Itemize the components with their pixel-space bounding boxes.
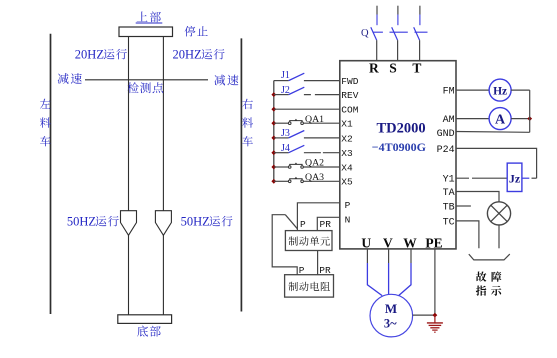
label 制动电阻	[289, 282, 330, 291]
switch J3	[274, 131, 340, 138]
svg-text:P: P	[345, 200, 351, 211]
junction node on bus y=167	[271, 165, 276, 170]
svg-text:AM: AM	[443, 115, 455, 126]
braking resistor 制动电阻 box	[285, 275, 334, 297]
wire W to motor	[399, 249, 411, 296]
contact QA2 (limit switch)	[274, 163, 340, 169]
svg-text:R: R	[369, 60, 379, 75]
svg-text:Jz: Jz	[509, 172, 521, 186]
label 20HZ运行 right	[173, 47, 225, 61]
junction node ground	[432, 313, 437, 318]
switch J2 (reverse run)	[274, 87, 340, 94]
label 检测点 (detection point)	[128, 82, 164, 93]
meter return bus vertical	[529, 90, 531, 132]
svg-text:X3: X3	[341, 148, 353, 159]
label 停止 (stop)	[185, 26, 208, 37]
breaker Q pole S supply lead	[392, 6, 398, 61]
fault group bracket	[469, 254, 510, 260]
left rail (hoist guide, 左料车 track)	[50, 34, 52, 314]
motor M 3~	[370, 294, 413, 337]
shaft column right wall	[162, 37, 164, 315]
shaft column left wall	[128, 37, 130, 315]
svg-text:M: M	[385, 301, 397, 316]
label 50HZ运行 right	[181, 214, 233, 228]
contact QA3 (limit switch)	[274, 177, 340, 183]
junction node on bus y=95	[271, 92, 276, 97]
pin P wire to braking unit	[297, 203, 339, 231]
braking unit 制动单元 box	[285, 231, 332, 251]
svg-text:V: V	[383, 236, 393, 251]
junction node on bus y=138	[271, 135, 276, 140]
svg-text:X2: X2	[341, 133, 353, 144]
label 20HZ运行 left	[75, 47, 127, 61]
wire Jz to P24 drop	[522, 177, 537, 179]
wire motor frame to ground	[413, 314, 435, 316]
detection point line	[85, 79, 208, 81]
svg-text:Hz: Hz	[493, 85, 507, 97]
junction node on bus y=153	[271, 150, 276, 155]
svg-text:TD2000: TD2000	[377, 121, 426, 137]
wire V to motor	[388, 249, 390, 294]
wire FM to Hz meter	[456, 89, 489, 91]
label 底部 (bottom)	[137, 326, 161, 337]
svg-text:FWD: FWD	[341, 76, 358, 87]
label 故障指示 (fault indication)	[476, 271, 502, 295]
svg-text:J3: J3	[281, 128, 290, 139]
svg-text:20HZ: 20HZ	[75, 47, 104, 61]
svg-text:X1: X1	[341, 119, 353, 130]
wire A to meter bus	[511, 118, 530, 120]
svg-text:20HZ: 20HZ	[173, 47, 202, 61]
switch J1 (forward run)	[274, 73, 340, 80]
svg-text:50HZ: 50HZ	[181, 214, 210, 228]
svg-text:QA1: QA1	[305, 114, 324, 125]
svg-text:P: P	[299, 265, 305, 276]
wire Hz to meter bus	[511, 89, 530, 91]
relay coil Jz	[507, 163, 522, 191]
svg-text:QA3: QA3	[305, 172, 324, 183]
wire TA to fault lamp	[456, 192, 499, 202]
svg-text:Q: Q	[361, 28, 369, 39]
svg-text:PR: PR	[320, 219, 332, 230]
wire braking unit P to resistor P	[272, 215, 297, 275]
meter A (ammeter)	[489, 108, 511, 130]
svg-text:TA: TA	[443, 188, 455, 199]
svg-text:A: A	[495, 112, 506, 127]
junction node meters	[527, 116, 532, 121]
svg-text:QA2: QA2	[305, 157, 324, 168]
wire TC down	[456, 221, 479, 248]
svg-text:COM: COM	[341, 105, 358, 116]
label 50HZ运行 left	[67, 214, 119, 228]
label 减速 right	[214, 75, 238, 86]
svg-text:GND: GND	[437, 129, 455, 140]
label 左料车 vertical (left cart)	[40, 99, 51, 147]
svg-text:FM: FM	[443, 87, 455, 98]
svg-text:J2: J2	[281, 85, 290, 96]
label 减速 left	[58, 73, 82, 84]
svg-text:TC: TC	[443, 217, 455, 228]
svg-text:W: W	[403, 236, 417, 251]
svg-text:50HZ: 50HZ	[67, 214, 96, 228]
svg-text:P: P	[300, 219, 306, 230]
pin N wire to braking unit	[317, 217, 340, 230]
wire U to motor	[367, 249, 382, 296]
svg-text:PE: PE	[425, 236, 442, 251]
svg-text:PR: PR	[319, 265, 331, 276]
wire braking unit PR to resistor PR	[317, 251, 319, 275]
breaker Q pole R supply lead	[371, 6, 377, 61]
label 上部 (top)	[136, 11, 163, 23]
wire PE to ground	[434, 249, 436, 315]
contact QA1 (limit switch)	[274, 119, 340, 125]
svg-text:J1: J1	[281, 70, 290, 81]
label 制动单元	[289, 236, 330, 245]
top crossbeam bar	[119, 27, 173, 37]
junction node on bus y=181	[271, 179, 276, 184]
wire TB stub	[456, 205, 471, 207]
svg-text:3~: 3~	[384, 317, 397, 331]
left hopper (pentagon pointer)	[121, 211, 137, 236]
bottom base bar	[118, 315, 172, 324]
svg-text:N: N	[345, 214, 351, 225]
breaker Q linkage (dashed)	[373, 31, 428, 33]
junction node on bus y=123	[271, 121, 276, 126]
svg-text:TB: TB	[443, 203, 455, 214]
svg-text:REV: REV	[341, 90, 358, 101]
wire GND return	[456, 131, 530, 134]
right hopper (pentagon pointer)	[155, 211, 171, 236]
svg-text:−4T0900G: −4T0900G	[372, 140, 426, 154]
svg-text:X4: X4	[341, 162, 353, 173]
svg-text:J4: J4	[281, 143, 290, 154]
control common bus wire	[273, 81, 275, 182]
junction node on bus y=109	[271, 107, 276, 112]
fault lamp (circle-X)	[487, 202, 510, 225]
ground symbol	[427, 315, 443, 332]
svg-text:U: U	[361, 236, 371, 251]
right rail (hoist guide, 右料车 track)	[240, 38, 242, 311]
wire P24 to relay supply	[456, 148, 537, 178]
label 右料车 vertical (right cart)	[242, 99, 253, 147]
meter Hz (frequency)	[489, 79, 511, 101]
wire Y1 to relay Jz (dashed)	[456, 177, 507, 179]
svg-text:P24: P24	[437, 145, 455, 156]
breaker Q pole T supply lead	[414, 6, 420, 61]
svg-text:X5: X5	[341, 177, 353, 188]
switch J4	[274, 145, 340, 152]
svg-text:Y1: Y1	[443, 175, 455, 186]
inverter TD2000 box outline	[340, 61, 456, 249]
wire AM to A meter	[456, 118, 489, 120]
wire COM to bus	[274, 108, 340, 110]
svg-text:T: T	[412, 60, 421, 75]
svg-text:S: S	[389, 60, 397, 75]
wire lamp down	[498, 225, 500, 248]
